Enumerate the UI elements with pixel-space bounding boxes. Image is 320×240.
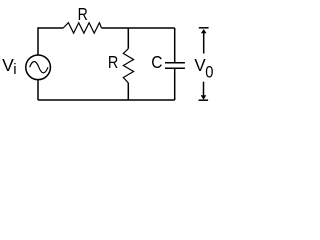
svg-text:i: i (13, 61, 16, 78)
svg-text:R: R (108, 52, 118, 72)
svg-text:C: C (151, 52, 162, 72)
svg-text:0: 0 (205, 63, 213, 81)
svg-text:R: R (78, 4, 88, 24)
